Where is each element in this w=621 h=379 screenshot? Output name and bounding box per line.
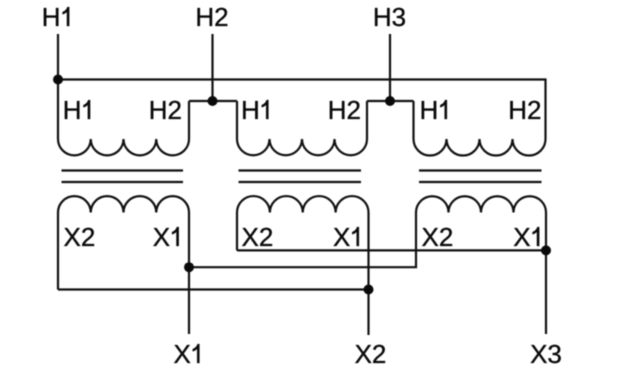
wire: T1-X2 to T2-X1 bottom link	[58, 288, 369, 290]
junction dot node X3	[541, 245, 551, 255]
transformer T3 core	[419, 169, 542, 171]
junction dot node H3	[385, 96, 395, 106]
wire: link T2-H2 to T3-H1	[367, 100, 414, 102]
wire: top bus from H1 node to T3-H2	[58, 80, 546, 140]
transformer T1 primary winding H1-H2	[58, 80, 189, 156]
transformer T2 primary winding H1-H2	[237, 101, 367, 155]
svg-text:X: X	[153, 222, 170, 252]
transformer T3 secondary winding X2-X1	[416, 196, 546, 212]
junction dot node X1	[184, 262, 194, 272]
svg-text:H2: H2	[328, 95, 361, 125]
svg-text:X3: X3	[530, 339, 562, 369]
svg-text:X: X	[333, 222, 350, 252]
wire: H3 terminal lead	[389, 34, 391, 101]
svg-text:H: H	[42, 2, 61, 32]
svg-text:X: X	[513, 222, 530, 252]
wire: T1-X1 to T3-X2 link	[189, 213, 416, 268]
svg-text:H2: H2	[508, 95, 541, 125]
junction dot node H1 on bus	[53, 75, 63, 85]
transformer T3 primary winding H1-H2	[414, 101, 546, 156]
wire: H2 terminal lead	[211, 34, 213, 101]
transformer T1 secondary winding X2-X1	[58, 196, 189, 289]
svg-text:H: H	[63, 95, 82, 125]
wire: X1 terminal lead	[188, 213, 190, 335]
transformer T2 core	[239, 169, 362, 171]
transformer T1 core	[62, 169, 184, 171]
junction dot node X2	[364, 285, 374, 295]
svg-text:H: H	[241, 95, 260, 125]
svg-text:H: H	[420, 95, 439, 125]
svg-text:X2: X2	[64, 222, 96, 252]
svg-text:H3: H3	[373, 2, 406, 32]
svg-text:X: X	[174, 339, 191, 369]
svg-text:H2: H2	[149, 95, 182, 125]
svg-text:H2: H2	[195, 2, 228, 32]
svg-text:X2: X2	[242, 222, 274, 252]
svg-text:X2: X2	[422, 222, 454, 252]
wire: link T1-H2 to T2-H1	[189, 100, 237, 102]
junction dot node H2	[208, 96, 218, 106]
svg-text:X2: X2	[355, 339, 387, 369]
wire: X2 terminal lead	[367, 213, 369, 336]
wire: H1 terminal lead	[57, 34, 59, 81]
wire: X3 terminal lead	[545, 213, 547, 335]
wire: T2-X2 to T3-X1 link	[237, 249, 546, 251]
transformer T2 secondary winding X2-X1	[237, 196, 369, 250]
